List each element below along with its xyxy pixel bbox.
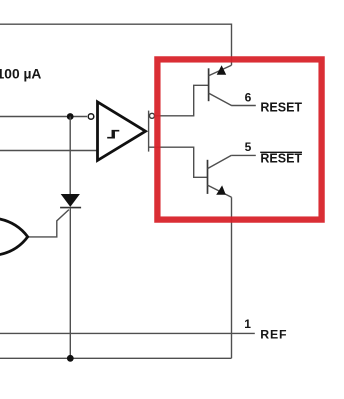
op-amp U1 schmitt triangle xyxy=(98,102,146,160)
transistor Q2 emitter xyxy=(208,185,232,197)
wire input upper xyxy=(0,116,87,118)
transistor Q1 emitter xyxy=(209,65,232,76)
svg-text:RESET: RESET xyxy=(260,100,302,114)
wire upper base branch xyxy=(155,85,208,116)
svg-text:RESET: RESET xyxy=(260,152,302,166)
logic gate G1 body xyxy=(0,219,28,255)
wire lower base branch xyxy=(149,147,208,177)
wire pin 5 lead xyxy=(231,154,256,156)
wire top rail xyxy=(0,24,232,65)
op-amp U1 output bubble xyxy=(150,113,155,118)
node junction dot upper xyxy=(67,113,74,120)
transistor Q2 collector xyxy=(208,155,232,168)
svg-text:100 µA: 100 µA xyxy=(0,66,41,81)
wire emitter drop to rail xyxy=(231,197,233,358)
wire schmitt output vertical xyxy=(148,111,150,152)
wire bottom rail xyxy=(0,357,232,359)
svg-text:5: 5 xyxy=(245,140,252,154)
svg-text:1: 1 xyxy=(244,317,251,331)
thyristor D1 cathode bar xyxy=(60,207,81,209)
hysteresis symbol xyxy=(107,131,119,138)
wire pin 6 lead xyxy=(231,105,256,107)
highlight box red xyxy=(157,59,321,219)
transistor Q1 collector xyxy=(209,93,232,105)
svg-text:6: 6 xyxy=(245,90,252,104)
wire thyristor gate xyxy=(28,210,69,237)
wire cathode drop xyxy=(69,208,71,359)
transistor Q2 base bar xyxy=(207,160,209,194)
op-amp U1 input bubble xyxy=(88,114,94,120)
wire input lower xyxy=(0,150,98,152)
svg-text:REF: REF xyxy=(260,328,287,342)
transistor Q1 emitter arrow xyxy=(217,65,227,75)
node junction dot bottom xyxy=(67,355,74,362)
label RESET pin5 overline xyxy=(260,151,302,153)
transistor Q1 base bar xyxy=(208,68,210,101)
wire REF line xyxy=(0,332,255,334)
thyristor D1 anode triangle xyxy=(61,194,80,207)
wire current-source drop xyxy=(69,117,71,195)
transistor Q2 emitter arrow xyxy=(216,185,226,194)
